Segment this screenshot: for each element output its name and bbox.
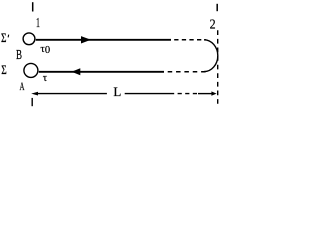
svg-text:τ: τ (43, 72, 48, 84)
svg-text:A: A (20, 79, 25, 93)
svg-text:L: L (113, 84, 121, 99)
svg-text:B: B (16, 48, 22, 63)
svg-text:Σ: Σ (1, 63, 7, 77)
svg-text:1: 1 (36, 16, 40, 31)
svg-text:τ0: τ0 (40, 43, 50, 56)
svg-text:Σ: Σ (1, 31, 7, 45)
svg-text:2: 2 (210, 18, 216, 33)
